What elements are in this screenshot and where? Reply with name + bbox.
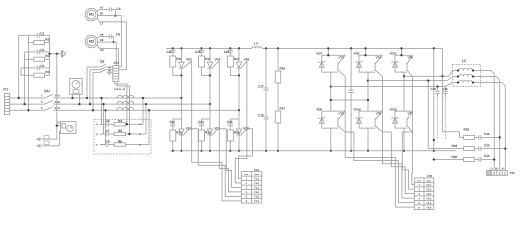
wire XT3 down-leg 1 (115, 82, 127, 125)
resistor R16 (277, 47, 279, 49)
svg-text:VT2: VT2 (338, 56, 344, 60)
svg-text:C22: C22 (484, 132, 490, 136)
capacitor C15 (229, 47, 231, 49)
wire midpoint tie (359, 71, 375, 73)
wire L2 out row3 (481, 82, 503, 84)
svg-text:XT3: XT3 (114, 61, 120, 65)
svg-text:R1: R1 (45, 37, 49, 41)
svg-text:F1.6: F1.6 (254, 200, 259, 203)
svg-text:C11: C11 (166, 50, 172, 54)
svg-text:XT6: XT6 (254, 168, 259, 172)
resistor R20 (464, 158, 475, 162)
transistor VT6 (395, 54, 413, 56)
wire dc mid tie (331, 99, 368, 101)
svg-text:Конт: Конт (417, 179, 421, 182)
svg-text:C18: C18 (258, 114, 264, 118)
resistor R18 (459, 136, 463, 138)
capacitor C13 (200, 47, 202, 49)
svg-text:C1: C1 (40, 31, 44, 35)
svg-text:C17: C17 (258, 85, 264, 89)
svg-text:F2.2: F2.2 (427, 188, 432, 191)
svg-text:C3: C3 (40, 64, 44, 68)
svg-text:R4: R4 (118, 119, 122, 123)
wire phase V tap down (427, 81, 429, 149)
connector XT6 (241, 172, 261, 204)
gate wire VS3 (212, 129, 218, 135)
diode VD9 (358, 55, 360, 72)
wire bases to XT8 (345, 77, 414, 207)
svg-text:F1.1: F1.1 (254, 178, 259, 181)
svg-text:C15: C15 (224, 50, 230, 54)
terminal C7 (97, 18, 103, 22)
resistor R15 (227, 130, 233, 141)
wire phase A from XT1 (10, 97, 44, 99)
svg-text:R20: R20 (452, 155, 458, 159)
resistor R17 (277, 83, 279, 111)
svg-text:Q2: Q2 (100, 60, 105, 64)
svg-text:R18: R18 (464, 128, 470, 132)
thyristor VS3 (209, 119, 211, 129)
svg-text:C16: C16 (227, 120, 233, 124)
terminal C8 (97, 45, 103, 49)
svg-text:C4: C4 (116, 7, 120, 11)
wire midpoint tie (395, 71, 407, 73)
svg-text:R16: R16 (280, 67, 286, 71)
wire B7 (103, 15, 121, 17)
wire phase down to branch VS5 (238, 110, 240, 119)
svg-text:C13: C13 (195, 50, 201, 54)
svg-text:R6: R6 (118, 139, 122, 143)
gate wire VS2 (184, 61, 192, 67)
svg-text:F2.1: F2.1 (427, 184, 432, 187)
svg-text:F1.2: F1.2 (254, 182, 259, 185)
transistor VT5 (359, 110, 382, 112)
wire C8 (103, 47, 119, 49)
svg-text:C5: C5 (116, 33, 120, 37)
emitter control wire VT7 (402, 131, 412, 133)
capacitor C1 (19, 34, 38, 36)
resistor R12 (199, 56, 205, 67)
svg-text:R17: R17 (280, 107, 286, 111)
wire PA1 to phase A (72, 94, 74, 98)
svg-text:Конт: Конт (244, 173, 248, 176)
terminal B8 (98, 41, 103, 43)
thyristor VS2 (180, 47, 182, 49)
svg-text:XT1: XT1 (3, 88, 9, 92)
svg-text:Q11: Q11 (44, 89, 50, 93)
svg-text:F2.3: F2.3 (427, 193, 432, 196)
capacitor C11 (172, 47, 174, 49)
svg-text:L1.1...3: L1.1...3 (115, 87, 126, 91)
thyristor VS4 (209, 47, 211, 49)
svg-text:VS2: VS2 (186, 58, 192, 62)
capacitor C17 (265, 47, 267, 49)
wire C2 left leg to phase B (24, 52, 26, 104)
damper assembly dashed box (94, 120, 151, 155)
wire bottom tie (322, 127, 338, 129)
connector XT3 (113, 66, 119, 82)
wire to chassis (50, 53, 62, 55)
svg-text:2 A2: 2 A2 (55, 95, 61, 98)
gate wire VS1 (184, 129, 190, 135)
capacitor C22 (475, 136, 479, 138)
wire dc minus drop (433, 47, 435, 49)
wire C3 left leg (20, 68, 22, 75)
resistor R11 (170, 130, 176, 141)
resistor R14 (227, 56, 233, 67)
thyristor VS6 (238, 47, 240, 49)
capacitor C20 dc link (350, 47, 352, 49)
svg-text:VS6: VS6 (244, 58, 250, 62)
wire output V (368, 80, 447, 82)
transistor VT4 (359, 54, 382, 56)
wire branch node to phase (173, 75, 182, 77)
wire XT3 down-leg 2 (117, 82, 130, 135)
emitter control wire VT2 (344, 76, 346, 79)
capacitor C18 (265, 90, 267, 117)
wire L2 out row1 (481, 70, 492, 72)
svg-text:VD12: VD12 (390, 107, 398, 111)
wire R1 stub leg to phase C (27, 35, 29, 110)
wire to frame arrow 1 (37, 138, 57, 140)
wire phase down to branch VS1 (180, 98, 182, 119)
svg-text:C8: C8 (106, 139, 110, 143)
svg-text:VD9: VD9 (354, 51, 360, 55)
svg-text:R19: R19 (452, 144, 458, 148)
wire damper row3 right to phase C (148, 110, 150, 144)
capacitor C6 (100, 123, 106, 125)
wire phase A after Q11 (56, 97, 181, 99)
svg-text:C6: C6 (106, 119, 110, 123)
motor M2 (85, 35, 98, 48)
wire damper row2 right to phase B (145, 104, 147, 134)
ammeter PA1 (70, 79, 83, 95)
inductor L3 (252, 47, 262, 49)
capacitor C23 (475, 148, 479, 150)
wire output W (331, 86, 445, 88)
emitter control wire VT6 (412, 76, 414, 79)
svg-text:M1: M1 (89, 13, 94, 17)
wire phase B from XT1 (10, 103, 44, 105)
svg-text:L3: L3 (254, 42, 258, 46)
wire L2 out row2 (481, 76, 497, 78)
svg-text:L2: L2 (462, 59, 466, 63)
wire phase U tap down (442, 76, 444, 132)
resistor R13 (199, 130, 205, 141)
wire damper row3 to phase C (105, 110, 107, 144)
svg-text:VT6: VT6 (408, 56, 414, 60)
svg-text:C24: C24 (484, 154, 490, 158)
svg-text:VD11: VD11 (390, 51, 398, 55)
wire damper row2 to phase B (103, 104, 105, 134)
wire PA1 to phase B (79, 94, 81, 104)
svg-text:C7: C7 (106, 129, 110, 133)
svg-text:XT9: XT9 (510, 171, 515, 175)
capacitor C3 (21, 67, 37, 69)
svg-text:1: 1 (504, 171, 506, 175)
motor M1 (85, 8, 98, 21)
resistor R3 (34, 73, 45, 77)
diode VD8 (321, 111, 323, 128)
wire branch node to phase (230, 75, 239, 77)
svg-text:VS4: VS4 (215, 58, 221, 62)
wire bottom tie (359, 127, 375, 129)
frame arrow 1 (37, 137, 40, 141)
capacitor C24 (475, 159, 479, 161)
thyristor VS1 (180, 119, 182, 129)
gate wire VS6 (241, 61, 247, 67)
svg-text:C2: C2 (40, 48, 44, 52)
wire rail corner down (442, 48, 444, 76)
svg-text:VT4: VT4 (376, 56, 382, 60)
wire bottom tie (395, 127, 407, 129)
capacitor C2 (25, 51, 38, 53)
capacitor C12 (172, 119, 174, 124)
resistor R5 (114, 132, 126, 135)
resistor R2 (34, 57, 45, 61)
svg-text:C23: C23 (484, 143, 490, 147)
connector XT1 (5, 93, 10, 114)
connector XT9 (487, 171, 508, 176)
wire A8 with capacitor C5 in series (103, 36, 109, 38)
svg-text:R5: R5 (118, 129, 122, 133)
wire C1 left leg to phase A (18, 35, 20, 98)
capacitor C7 (100, 133, 106, 135)
wire right bus of RC loops (49, 35, 51, 75)
wire phase C from XT1 (10, 109, 44, 111)
resistor R1 (34, 41, 45, 45)
inductor L2 (453, 65, 481, 87)
wire branch node to phase (202, 75, 211, 77)
resistor R4 (114, 123, 126, 126)
svg-text:VD8: VD8 (316, 107, 322, 111)
transistor VT2 (322, 54, 345, 56)
transistor VT3 (322, 110, 345, 112)
thyristor VS5 (238, 119, 240, 129)
diode VD12 (394, 111, 396, 128)
capacitor C14 (201, 119, 203, 124)
wire phase B after Q11 (56, 103, 210, 105)
svg-text:C12: C12 (169, 120, 175, 124)
connector XT8 (414, 178, 434, 210)
capacitor C18b (437, 87, 439, 92)
chassis ground symbol (60, 50, 62, 58)
svg-text:M2: M2 (89, 40, 94, 44)
diode VD10 (358, 111, 360, 128)
emitter control wire VT5 (382, 131, 391, 133)
transistor VT7 (395, 110, 413, 112)
diode VD11 (394, 55, 396, 72)
svg-text:F1.4: F1.4 (254, 191, 259, 194)
svg-text:6 C2: 6 C2 (55, 107, 61, 110)
wire phase C after Q11 (56, 109, 239, 111)
wire top DC rail (166, 47, 252, 49)
wire midpoint tie (322, 71, 338, 73)
terminal B7 (98, 15, 103, 17)
wire to frame arrow 2 (37, 145, 59, 147)
wire PV pin3 (59, 130, 60, 132)
wire PV pin2 (57, 125, 61, 127)
svg-text:C18: C18 (431, 87, 437, 91)
frame arrow 2 (37, 144, 40, 148)
emitter control wire VT4 (381, 76, 383, 79)
svg-text:R3: R3 (45, 70, 49, 74)
wire damper row1 right to phase A (142, 98, 144, 124)
gate wire VS5 (241, 129, 247, 135)
svg-text:F1.3: F1.3 (254, 187, 259, 190)
capacitor C16 (229, 119, 231, 124)
wire B8 (103, 41, 116, 43)
svg-text:F2.4: F2.4 (427, 197, 432, 200)
wire bottom DC rail (170, 150, 456, 152)
svg-text:3: 3 (493, 171, 495, 175)
resistor R10 (170, 56, 176, 67)
capacitor C8 (100, 144, 106, 146)
svg-text:F2.6: F2.6 (427, 206, 432, 209)
svg-text:VT5: VT5 (376, 112, 382, 116)
svg-text:VD7: VD7 (316, 51, 322, 55)
wire A7 with capacitor C4 in series (103, 9, 109, 11)
resistor R6 (114, 143, 126, 146)
diode VD7 (321, 55, 323, 72)
wire PV pin1 stub (58, 122, 61, 124)
svg-text:2: 2 (499, 171, 501, 175)
capacitor C19 (445, 87, 447, 92)
emitter control wire VT3 (345, 131, 354, 133)
wire phase down to branch VS3 (209, 104, 211, 119)
terminal A7 (97, 10, 103, 12)
terminal A8 (97, 37, 103, 39)
wire ground drop to PV (56, 54, 58, 139)
wire C7 (103, 21, 126, 23)
svg-text:F2.5: F2.5 (427, 202, 432, 205)
wire gates to XT6 (192, 61, 242, 201)
svg-text:VD10: VD10 (354, 107, 362, 111)
wire neutral tap (434, 159, 464, 161)
svg-text:XT8: XT8 (427, 174, 432, 178)
svg-text:F1.5: F1.5 (254, 196, 259, 199)
svg-text:C14: C14 (198, 120, 204, 124)
resistor R19 (464, 147, 475, 151)
svg-text:4 B2: 4 B2 (55, 101, 61, 104)
wire damper row1 to phase A (101, 98, 103, 124)
voltmeter PV1 (61, 122, 77, 134)
svg-text:VT3: VT3 (338, 112, 344, 116)
wire output U (404, 75, 449, 77)
gate wire VS4 (212, 61, 219, 67)
